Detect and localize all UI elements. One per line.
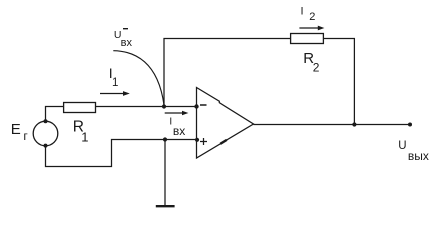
label Iвх with arrow xyxy=(165,111,189,139)
wire output xyxy=(254,124,411,126)
label I1 with arrow xyxy=(100,65,130,96)
dot at op-amp inverting pin xyxy=(194,104,198,108)
svg-text:1: 1 xyxy=(112,77,118,89)
label R2 xyxy=(303,50,319,75)
node non-inverting junction xyxy=(163,137,167,141)
wire R2 to output node xyxy=(323,39,354,125)
op-amp plus sign xyxy=(200,138,207,145)
ground xyxy=(156,205,175,207)
label Uвых xyxy=(398,140,429,163)
label R1 xyxy=(73,119,89,145)
svg-text:I: I xyxy=(169,117,172,128)
svg-text:I: I xyxy=(301,5,304,17)
svg-text:E: E xyxy=(11,121,21,138)
label I2 with arrow xyxy=(299,5,324,30)
svg-text:2: 2 xyxy=(313,60,320,74)
tick on op-amp lower edge xyxy=(220,140,227,144)
resistor R2 xyxy=(291,34,324,44)
dot at op-amp non-inverting pin xyxy=(195,138,199,142)
wire ground branch xyxy=(164,140,166,206)
wire source bottom loop to non-inverting input xyxy=(46,140,197,167)
junction feedback output xyxy=(352,122,356,126)
op-amp xyxy=(197,88,254,159)
svg-text:2: 2 xyxy=(309,11,315,23)
svg-text:вх: вх xyxy=(121,37,133,49)
op-amp minus sign xyxy=(200,104,207,106)
junction dot source bottom xyxy=(44,144,48,148)
wire feedback riser and top run xyxy=(164,39,291,107)
svg-text:г: г xyxy=(23,129,28,143)
node inverting junction xyxy=(162,104,166,108)
svg-text:U: U xyxy=(398,140,406,152)
wire R1 to op-amp inverting input xyxy=(96,106,197,108)
label Uвх minus with leader curve xyxy=(113,29,164,105)
label Eг xyxy=(11,121,29,143)
terminal output end xyxy=(408,123,412,127)
voltage source Eг xyxy=(33,121,58,146)
svg-text:1: 1 xyxy=(81,130,88,145)
junction dot source top xyxy=(44,119,48,123)
wire source top to R1 xyxy=(46,107,65,122)
svg-text:вых: вых xyxy=(408,149,429,163)
resistor R1 xyxy=(64,103,96,113)
svg-text:вх: вх xyxy=(173,124,185,138)
